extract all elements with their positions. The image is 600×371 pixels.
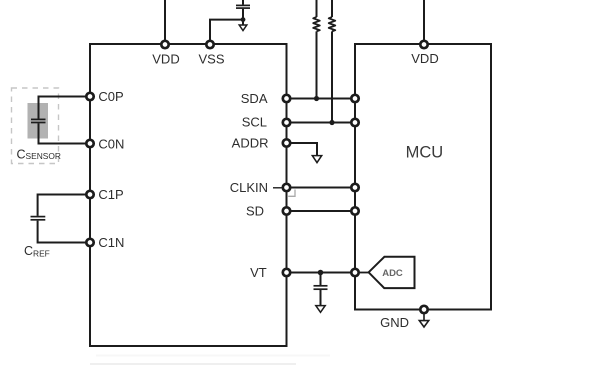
pin VDD (IC) [161,41,168,48]
op-amp ADC tag [360,257,415,288]
wire VSS to decoupling node [210,20,243,44]
pin SCL (IC) [283,119,290,126]
svg-text:SD: SD [246,204,264,219]
wire SDA [287,98,356,100]
pin SDA (MCU) [351,95,358,102]
capacitor CSENSOR loop [31,97,90,144]
ground (ADDR) [312,156,321,163]
svg-text:SCL: SCL [242,115,267,130]
svg-text:C0N: C0N [98,136,124,151]
pin VT (MCU) [351,269,358,276]
ground (VT cap) [316,306,325,313]
wire MCU VDD supply [423,0,425,44]
svg-text:C1N: C1N [98,235,124,250]
pin VSS [206,41,213,48]
node SDA junction [314,96,319,101]
svg-text:GND: GND [380,315,409,330]
pin C0P [86,93,93,100]
MCU body [355,44,491,310]
node SCL junction [329,120,334,125]
pin GND (MCU) [420,306,427,313]
capacitor C1 (VSS decoupling) [236,0,250,25]
svg-text:CLKIN: CLKIN [230,180,268,195]
svg-text:C0P: C0P [98,89,123,104]
ground (MCU GND) [419,314,428,327]
pin SD (IC) [283,207,290,214]
wire SCL [287,122,356,124]
pin CLKIN (IC) [283,184,290,191]
sensor gray pad [28,103,49,139]
capacitor CREF loop [31,195,91,243]
wire ADDR to ground [287,143,318,155]
svg-text:VT: VT [250,265,267,280]
pin SDA (IC) [283,95,290,102]
pin C1N [86,239,93,246]
pin ADDR [283,139,290,146]
wire VDD supply [164,0,166,44]
pin C0N [86,140,93,147]
resistor R1 (SDA pull-up) [313,0,320,99]
svg-text:VSS: VSS [198,52,224,67]
pin CLKIN (MCU) [351,184,358,191]
wire SD [287,210,356,212]
svg-text:C1P: C1P [98,187,123,202]
svg-text:ADDR: ADDR [232,135,269,150]
IC U1 body [90,44,287,346]
pin C1P [86,191,93,198]
node VT junction [318,270,324,276]
resistor R2 (SCL pull-up) [329,0,336,123]
svg-text:SDA: SDA [241,91,268,106]
svg-text:VDD: VDD [152,52,179,67]
pin SCL (MCU) [351,119,358,126]
svg-text:MCU: MCU [406,144,444,162]
pin VDD (MCU) [420,41,427,48]
faint ghost line bottom [90,363,296,365]
sensor dashed box [12,88,59,164]
clock corner mark [288,190,295,197]
wire CLKIN lead [273,187,282,189]
capacitor C2 (VT filter) [314,273,328,306]
pin VT (IC) [283,269,290,276]
svg-text:VDD: VDD [411,51,438,66]
ground (VSS cap) [239,25,247,31]
wire VT [287,272,356,274]
pin SD (MCU) [351,207,358,214]
wire CLKIN [287,187,356,189]
node VSS-cap junction [241,17,246,22]
svg-text:ADC: ADC [382,268,403,279]
